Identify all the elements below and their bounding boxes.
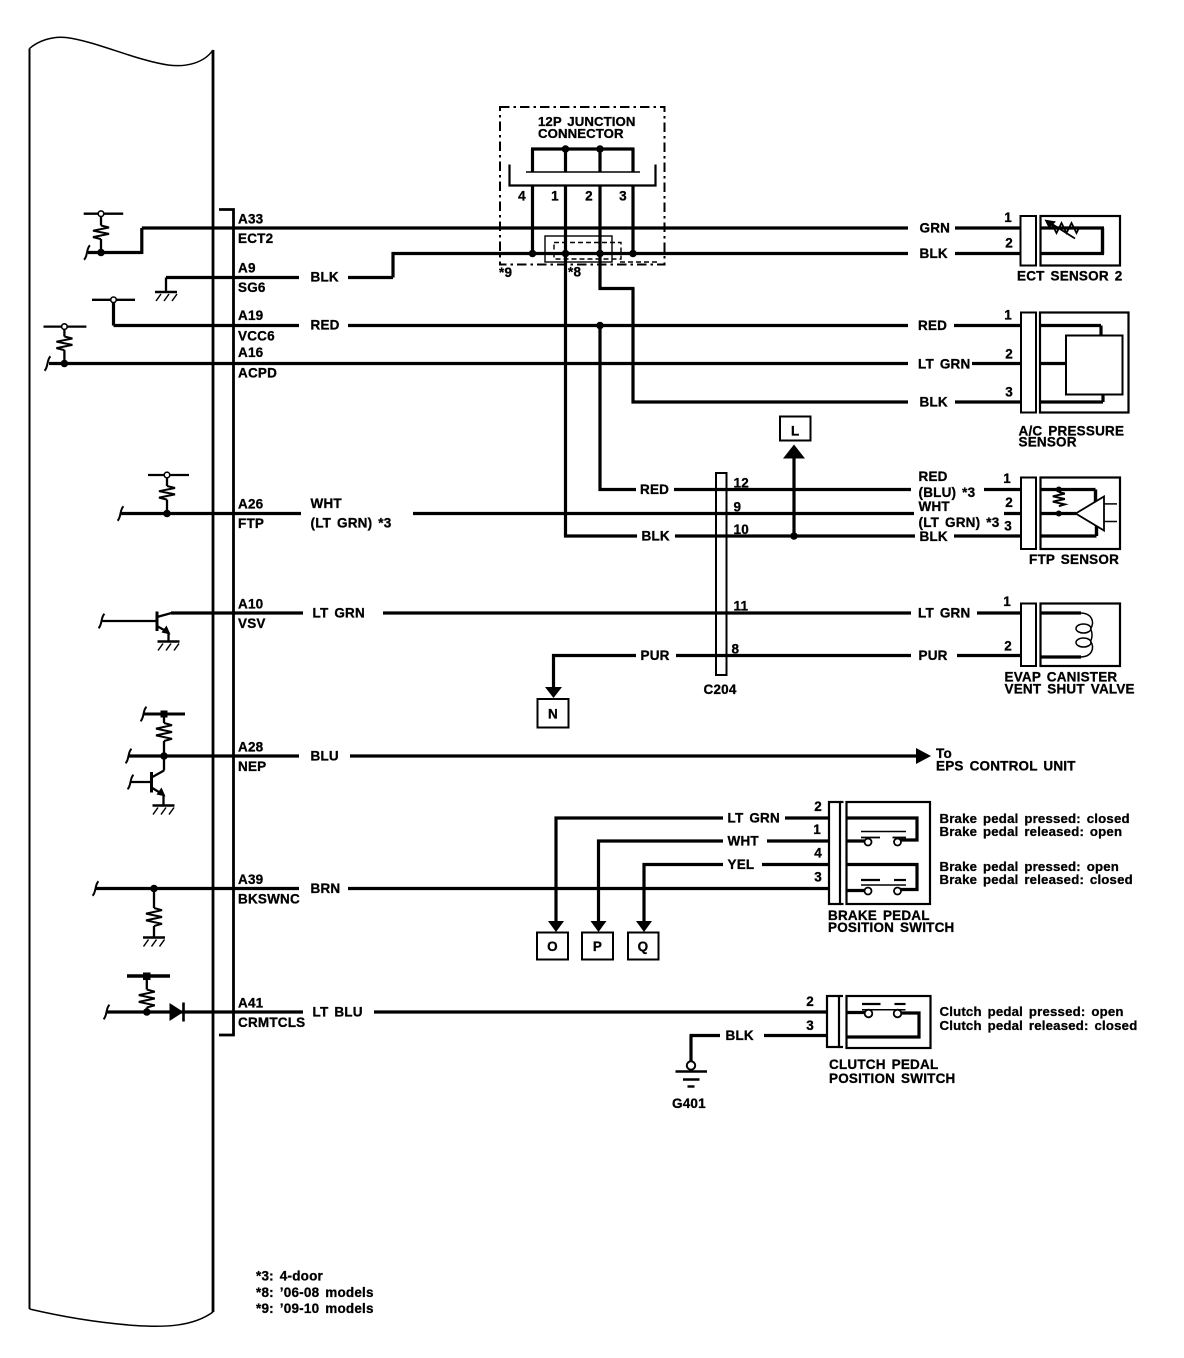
ECT sensor 2 body xyxy=(1041,216,1121,266)
clutch switch return wire pin 3 xyxy=(847,1013,920,1037)
FTP sensor output stub lower xyxy=(1104,521,1117,523)
wire WHT FTP right stub xyxy=(1004,512,1021,515)
wire A41 LT BLU segment left xyxy=(107,1010,303,1013)
A33 pull-up supply rail xyxy=(84,211,124,217)
12P junction connector dash-dot boundary xyxy=(500,107,665,265)
node A41 wire junction xyxy=(143,1008,151,1016)
node bus dot pin 2 xyxy=(596,250,604,258)
wire A9 BLK step riser xyxy=(391,252,394,278)
svg-text:FTP: FTP xyxy=(238,516,264,531)
PCM band torn top edge xyxy=(30,37,214,65)
svg-text:8: 8 xyxy=(732,642,740,657)
clutch switch wire pin 2 xyxy=(847,1011,865,1014)
ECT sensor 2 internal wire bottom xyxy=(1041,252,1105,255)
ECT sensor 2 internal right leg xyxy=(1101,228,1104,254)
svg-text:*9: *9 xyxy=(499,265,512,280)
wire break slash VSV base xyxy=(99,614,105,628)
svg-text:NEP: NEP xyxy=(238,759,266,774)
svg-text:Clutch pedal pressed: open: Clutch pedal pressed: open xyxy=(940,1004,1124,1019)
wire BLK drop to G401 xyxy=(689,1036,692,1062)
svg-text:GRN: GRN xyxy=(920,221,951,236)
wire YEL brake right stub xyxy=(762,863,829,866)
connector C204 bar xyxy=(716,473,727,675)
variant box *8 solid xyxy=(545,236,612,262)
svg-text:BLK: BLK xyxy=(642,529,670,544)
wire junction pin 2 upper xyxy=(598,149,601,172)
A/C pressure sensor internal wire pin 3 xyxy=(1040,400,1103,403)
svg-text:BRN: BRN xyxy=(311,881,341,896)
node A26 resistor junction xyxy=(163,510,171,518)
A/C pressure sensor internal riser pin 1 xyxy=(1099,326,1102,338)
resistor internal A26 pull-up rail xyxy=(148,472,189,478)
EVAP valve internal wire pin 1 xyxy=(1041,611,1082,614)
svg-text:4: 4 xyxy=(518,189,526,204)
switch S1 brake upper contacts (closed) xyxy=(861,832,906,846)
svg-text:SENSOR: SENSOR xyxy=(1019,435,1077,450)
wire riser to terminal L xyxy=(792,457,795,536)
wire WHT brake segment left xyxy=(597,839,723,842)
svg-text:RED: RED xyxy=(311,318,340,333)
wire BLK clutch segment left xyxy=(690,1034,721,1037)
wire junction pin 4 lower xyxy=(531,186,534,254)
svg-text:WHT: WHT xyxy=(311,496,343,511)
wire RED branch drop to FTP xyxy=(598,326,601,492)
terminal box P xyxy=(582,933,613,960)
FTP sensor internal wire pin 1 xyxy=(1041,488,1096,491)
wire A19 RED segment xyxy=(114,324,300,327)
svg-text:2: 2 xyxy=(1005,236,1013,251)
svg-text:Clutch pedal released: closed: Clutch pedal released: closed xyxy=(940,1018,1138,1033)
svg-text:LT GRN: LT GRN xyxy=(918,357,970,372)
svg-text:BLK: BLK xyxy=(920,529,948,544)
svg-text:A28: A28 xyxy=(238,740,264,755)
brake switch lower feed wire pin 4 xyxy=(847,865,918,890)
svg-text:BLK: BLK xyxy=(920,246,948,261)
svg-text:1: 1 xyxy=(813,822,821,837)
resistor internal A41 pull-up xyxy=(139,980,155,1013)
svg-text:RED: RED xyxy=(919,469,948,484)
FTP sensor internal riser pin 3 xyxy=(1095,525,1098,536)
node RED junction to FTP branch xyxy=(596,322,604,330)
svg-text:BKSWNC: BKSWNC xyxy=(238,892,300,907)
wire A33 internal riser xyxy=(140,228,143,254)
arrowhead to terminal Q xyxy=(636,921,652,932)
PCM band torn bottom edge xyxy=(30,1309,214,1326)
wire PUR segment left xyxy=(552,654,636,657)
svg-text:12: 12 xyxy=(734,476,749,491)
terminal box Q xyxy=(628,933,659,960)
brake switch upper wire pin 1 xyxy=(847,839,865,842)
ECT sensor 2 internal wire top xyxy=(1041,226,1105,229)
wire BLK clutch right stub xyxy=(764,1034,827,1037)
wire PUR row to EVAP valve pin 2 xyxy=(676,654,911,657)
svg-text:LT GRN: LT GRN xyxy=(313,606,365,621)
svg-text:2: 2 xyxy=(1005,495,1013,510)
svg-text:P: P xyxy=(593,939,602,954)
node A28 rail junction xyxy=(161,711,168,718)
svg-text:CONNECTOR: CONNECTOR xyxy=(538,126,624,141)
FTP sensor body xyxy=(1041,478,1121,550)
svg-text:2: 2 xyxy=(806,994,814,1009)
wire RED FTP row to FTP sensor pin 1 xyxy=(674,488,911,491)
svg-text:CRMTCLS: CRMTCLS xyxy=(238,1015,305,1030)
svg-text:A9: A9 xyxy=(238,261,256,276)
wire RED right stub xyxy=(954,324,1022,327)
wire break slash A16 xyxy=(45,356,51,370)
op-amp FTP sensor xyxy=(1076,497,1104,531)
connector bracket A/C pressure sensor xyxy=(1021,313,1036,413)
wire A28 BLU segment left xyxy=(128,754,299,757)
node BLK FTP junction to L xyxy=(790,532,798,540)
svg-text:CLUTCH PEDAL: CLUTCH PEDAL xyxy=(829,1057,938,1072)
svg-text:Q: Q xyxy=(638,939,649,954)
svg-text:A41: A41 xyxy=(238,996,264,1011)
svg-text:2: 2 xyxy=(814,799,822,814)
wire WHT drop to terminal P xyxy=(597,840,600,922)
svg-text:Brake pedal released: closed: Brake pedal released: closed xyxy=(940,872,1133,887)
svg-text:BLU: BLU xyxy=(311,749,339,764)
transistor Q NEP driver xyxy=(152,771,166,806)
EVAP valve body xyxy=(1041,604,1121,667)
wire BLK right stub xyxy=(955,252,1021,255)
resistor internal A26 pull-up xyxy=(159,478,175,514)
svg-text:A16: A16 xyxy=(238,345,264,360)
svg-text:POSITION SWITCH: POSITION SWITCH xyxy=(828,920,955,935)
svg-text:SG6: SG6 xyxy=(238,280,266,295)
wire junction pin 2 lower xyxy=(598,186,601,291)
A41 pull-up supply rail xyxy=(127,974,170,977)
svg-text:*9: ’09-10 models: *9: ’09-10 models xyxy=(256,1301,374,1316)
node A16 resistor junction xyxy=(61,360,69,368)
wire LT GRN right stub xyxy=(972,362,1022,365)
node A41 rail junction xyxy=(143,973,151,981)
connector bracket EVAP valve xyxy=(1021,604,1036,667)
svg-text:*3: 4-door: *3: 4-door xyxy=(256,1269,324,1284)
PCM torn vertical band right edge xyxy=(212,50,215,1312)
terminal box O xyxy=(537,933,568,960)
node A28 wire junction xyxy=(160,752,168,760)
wire BLU row to EPS control unit xyxy=(350,754,917,757)
wire BRN row to brake switch pin 3 xyxy=(348,887,829,890)
node bus dot pin 4 xyxy=(529,250,537,258)
PCM connector pin bracket xyxy=(219,210,234,1036)
junction connector housing tray xyxy=(510,165,656,186)
svg-text:1: 1 xyxy=(1003,594,1011,609)
wire junction pin 1 upper xyxy=(564,149,567,172)
wire BLK FTP right stub xyxy=(954,534,1021,537)
svg-text:POSITION SWITCH: POSITION SWITCH xyxy=(829,1071,956,1086)
svg-text:EPS CONTROL UNIT: EPS CONTROL UNIT xyxy=(936,759,1076,774)
wire break slash A39 xyxy=(93,881,99,895)
wire break slash NEP base xyxy=(128,775,134,789)
wire LT BLU row to clutch switch pin 2 xyxy=(374,1010,827,1013)
svg-text:(LT GRN) *3: (LT GRN) *3 xyxy=(919,515,1000,530)
svg-text:BLK: BLK xyxy=(311,270,339,285)
inductor L1 EVAP valve coil xyxy=(1076,613,1092,657)
svg-text:WHT: WHT xyxy=(919,499,951,514)
svg-text:O: O xyxy=(547,939,558,954)
svg-text:A39: A39 xyxy=(238,872,263,887)
terminal box L xyxy=(780,417,811,441)
wire break slash A33 xyxy=(84,245,90,259)
wire LT GRN VSV segment left xyxy=(171,611,303,614)
wire break slash A41 xyxy=(104,1005,110,1019)
PCM torn vertical band left edge xyxy=(29,49,31,1310)
svg-text:RED: RED xyxy=(918,318,947,333)
wire break slash A28 rail xyxy=(141,707,147,721)
wire BLK A/C right stub xyxy=(955,400,1022,403)
switch S2 brake lower contacts (open) xyxy=(861,880,906,895)
ground G401 xyxy=(676,1061,708,1086)
svg-text:9: 9 xyxy=(734,500,742,515)
svg-text:N: N xyxy=(548,707,558,722)
svg-text:1: 1 xyxy=(1003,471,1011,486)
connector bracket ECT sensor 2 xyxy=(1021,216,1037,266)
wire A19 internal drop xyxy=(112,303,115,326)
wire LT GRN brake segment left xyxy=(555,816,724,819)
svg-text:BLK: BLK xyxy=(920,395,948,410)
svg-text:10: 10 xyxy=(734,522,749,537)
svg-text:11: 11 xyxy=(734,599,749,614)
wire RED FTP right stub xyxy=(984,488,1021,491)
FTP sensor internal wire pin 3 xyxy=(1041,534,1097,537)
wire RED FTP segment left xyxy=(599,488,637,491)
wire BLK FTP row to FTP sensor pin 3 xyxy=(675,534,915,537)
svg-text:4: 4 xyxy=(814,846,822,861)
A/C pressure sensor element box xyxy=(1066,336,1123,395)
svg-text:FTP SENSOR: FTP SENSOR xyxy=(1029,552,1119,567)
A16 pull-up supply rail xyxy=(44,324,87,330)
svg-text:PUR: PUR xyxy=(641,648,670,663)
transistor Q NEP driver collector riser xyxy=(163,756,165,771)
resistor internal A39 pull-down xyxy=(146,889,162,938)
A/C pressure sensor internal wire pin 2 xyxy=(1040,362,1067,365)
node bus pin 1 xyxy=(562,145,570,153)
svg-text:2: 2 xyxy=(585,189,593,204)
FTP sensor internal drop pin 1 xyxy=(1094,490,1097,503)
svg-text:LT GRN: LT GRN xyxy=(728,811,780,826)
wire GRN right stub xyxy=(955,226,1021,229)
wire junction pin 3 upper xyxy=(631,149,634,172)
svg-text:1: 1 xyxy=(1004,210,1012,225)
node bus dot pin 1 xyxy=(562,250,570,258)
svg-text:(BLU) *3: (BLU) *3 xyxy=(919,485,976,500)
svg-text:A10: A10 xyxy=(238,597,263,612)
svg-text:VENT SHUT VALVE: VENT SHUT VALVE xyxy=(1005,682,1135,697)
A19 internal tap rail xyxy=(92,297,135,303)
svg-text:A33: A33 xyxy=(238,212,264,227)
brake switch upper feed wire pin 2 xyxy=(847,818,918,840)
svg-text:C204: C204 xyxy=(704,682,737,697)
12P junction connector bus bar xyxy=(531,147,635,150)
resistor FTP sensor internal xyxy=(1053,487,1065,517)
transistor Q NEP driver base lead xyxy=(131,781,152,783)
wire WHT brake right stub xyxy=(767,839,829,842)
node bus pin 2 xyxy=(596,145,604,153)
A/C pressure sensor internal wire pin 1 xyxy=(1040,324,1101,327)
svg-text:G401: G401 xyxy=(672,1096,706,1111)
arrowhead to terminal O xyxy=(548,921,564,932)
terminal box N xyxy=(538,699,569,728)
wire A39 BRN segment left xyxy=(96,887,299,890)
wire YEL drop to terminal Q xyxy=(642,863,645,921)
wire A33 row GRN to ECT sensor 2 pin 1 xyxy=(142,226,908,229)
wire A33 internal stub xyxy=(88,251,142,254)
ground VSV emitter xyxy=(158,642,180,651)
A28 pull-up supply rail xyxy=(144,713,185,716)
svg-text:2: 2 xyxy=(1004,639,1012,654)
svg-text:1: 1 xyxy=(551,189,559,204)
node A33 resistor junction xyxy=(97,249,105,257)
svg-text:3: 3 xyxy=(1004,519,1012,534)
variant box *9 dash xyxy=(554,243,621,260)
wire junction pin 3 lower xyxy=(631,186,634,254)
wire RED row to A/C pressure sensor pin 1 xyxy=(348,324,908,327)
wire WHT FTP row to FTP sensor pin 2 xyxy=(413,512,914,515)
FTP sensor output stub upper xyxy=(1104,503,1117,505)
wire LT GRN brake right stub xyxy=(785,816,829,819)
wire BLK branch to A/C pressure sensor pin 3 xyxy=(632,400,909,403)
wire junction pin 2 jog xyxy=(599,287,635,290)
svg-text:*8: *8 xyxy=(568,265,581,280)
svg-text:LT BLU: LT BLU xyxy=(313,1005,363,1020)
thermistor ECT sensor 2 xyxy=(1045,220,1080,239)
svg-text:PUR: PUR xyxy=(919,648,948,663)
wire junction pin 1 lower to FTP BLK xyxy=(564,186,567,538)
wire BLK FTP segment left xyxy=(564,534,637,537)
wire BLK bus row to ECT sensor 2 pin 2 xyxy=(392,252,909,255)
svg-text:1: 1 xyxy=(1004,308,1012,323)
wire PUR drop to terminal N xyxy=(552,654,555,688)
svg-text:A19: A19 xyxy=(238,308,263,323)
ground A39 resistor xyxy=(143,938,165,947)
svg-text:BLK: BLK xyxy=(726,1028,754,1043)
svg-text:RED: RED xyxy=(640,482,669,497)
svg-text:3: 3 xyxy=(814,870,822,885)
svg-text:ACPD: ACPD xyxy=(238,366,277,381)
ground NEP emitter xyxy=(153,806,175,815)
arrowhead to terminal L xyxy=(783,445,805,459)
ground SG6 internal xyxy=(155,278,177,302)
A/C pressure sensor body xyxy=(1040,313,1129,413)
connector bracket brake pedal position switch xyxy=(829,802,844,904)
svg-text:A26: A26 xyxy=(238,497,264,512)
arrowhead to terminal N xyxy=(545,687,562,698)
resistor internal A33 pull-up xyxy=(93,217,109,253)
svg-text:Brake pedal released: open: Brake pedal released: open xyxy=(940,824,1123,839)
EVAP valve internal wire pin 2 xyxy=(1041,655,1082,658)
A/C pressure sensor internal riser pin 3 xyxy=(1101,393,1104,402)
arrowhead to EPS control unit xyxy=(916,748,931,764)
diode D internal A41 xyxy=(170,1003,184,1022)
junction connector housing upper line xyxy=(526,171,640,173)
svg-text:VCC6: VCC6 xyxy=(238,329,275,344)
wire A16 row LT GRN to A/C pressure sensor pin 2 xyxy=(49,362,908,365)
svg-text:ECT2: ECT2 xyxy=(238,231,273,246)
wire A9 BLK segment xyxy=(348,276,393,279)
connector bracket clutch pedal position switch xyxy=(827,996,843,1047)
resistor internal A28 pull-up xyxy=(156,718,172,757)
brake pedal position switch body xyxy=(847,802,931,904)
wire break slash A28 xyxy=(126,749,132,763)
wire LT GRN drop to terminal O xyxy=(554,817,557,922)
switch S3 clutch contacts (open) xyxy=(862,1004,906,1017)
svg-text:(LT GRN) *3: (LT GRN) *3 xyxy=(311,516,392,531)
variant box dash tail xyxy=(620,261,658,263)
svg-text:ECT SENSOR 2: ECT SENSOR 2 xyxy=(1017,269,1122,284)
node A39 wire junction xyxy=(150,885,158,893)
svg-text:WHT: WHT xyxy=(728,834,760,849)
wire junction pin 2 drop to A/C BLK xyxy=(631,289,634,404)
connector bracket FTP sensor xyxy=(1021,478,1036,550)
wire break slash A26 xyxy=(118,506,124,520)
svg-text:3: 3 xyxy=(619,189,627,204)
arrowhead to terminal P xyxy=(591,921,607,932)
wire LT GRN EVAP right stub xyxy=(977,611,1021,614)
wire YEL brake segment left xyxy=(643,863,724,866)
svg-text:L: L xyxy=(791,424,799,439)
svg-text:LT GRN: LT GRN xyxy=(918,606,970,621)
wire SG6 ground stub xyxy=(166,276,299,279)
svg-text:3: 3 xyxy=(806,1018,814,1033)
svg-text:VSV: VSV xyxy=(238,616,266,631)
transistor Q VSV driver xyxy=(157,612,172,642)
transistor VSV driver base lead xyxy=(102,620,157,622)
svg-text:YEL: YEL xyxy=(728,857,755,872)
node bus dot pin 3 xyxy=(629,250,637,258)
svg-text:3: 3 xyxy=(1005,385,1013,400)
wire PUR right stub xyxy=(957,654,1021,657)
resistor internal A16 pull-up xyxy=(56,329,72,363)
clutch pedal position switch body xyxy=(847,996,931,1048)
FTP sensor internal wire pin 2 xyxy=(1041,512,1077,515)
svg-text:*8: ’06-08 models: *8: ’06-08 models xyxy=(256,1285,374,1300)
wire WHT FTP segment left xyxy=(120,512,301,515)
wire LT GRN row to EVAP valve pin 1 xyxy=(383,611,911,614)
svg-text:2: 2 xyxy=(1005,347,1013,362)
brake switch lower wire pin 3 xyxy=(847,889,865,892)
wire junction pin 4 upper xyxy=(531,149,534,172)
